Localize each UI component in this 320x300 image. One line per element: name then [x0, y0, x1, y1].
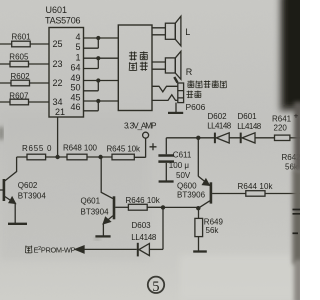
svg-text:D602: D602	[208, 112, 228, 121]
svg-text:Q600: Q600	[177, 181, 197, 190]
svg-text:+: +	[294, 111, 299, 121]
svg-text:34: 34	[53, 97, 63, 107]
svg-text:LL4148: LL4148	[237, 122, 262, 131]
svg-text:50V: 50V	[176, 171, 191, 180]
svg-text:22: 22	[53, 78, 63, 88]
svg-text:5: 5	[75, 42, 80, 52]
svg-text:46: 46	[70, 102, 80, 112]
svg-text:50: 50	[70, 83, 80, 93]
svg-text:4: 4	[75, 32, 80, 42]
svg-text:56k: 56k	[206, 226, 220, 235]
svg-text:L: L	[185, 27, 190, 37]
svg-text:R646 10k: R646 10k	[126, 196, 161, 205]
svg-text:220: 220	[274, 124, 288, 133]
svg-text:BT3904: BT3904	[18, 191, 47, 200]
svg-text:100 μ: 100 μ	[169, 161, 190, 170]
svg-text:1: 1	[75, 53, 80, 63]
svg-text:C611: C611	[173, 151, 192, 160]
svg-text:BT3906: BT3906	[177, 191, 206, 200]
svg-text:BT3904: BT3904	[81, 208, 110, 217]
svg-text:U601: U601	[46, 5, 68, 15]
svg-text:R: R	[186, 67, 193, 77]
svg-text:45: 45	[70, 92, 80, 102]
svg-text:R605: R605	[9, 53, 29, 62]
svg-text:R641: R641	[272, 115, 292, 124]
svg-text:Q601: Q601	[81, 197, 101, 206]
svg-text:3. 3V_AMP: 3. 3V_AMP	[124, 120, 157, 130]
svg-text:64: 64	[70, 62, 80, 72]
svg-text:R607: R607	[9, 92, 29, 101]
svg-text:5: 5	[152, 279, 159, 295]
svg-text:TAS5706: TAS5706	[45, 16, 81, 26]
svg-text:R602: R602	[11, 72, 31, 81]
svg-text:23: 23	[53, 59, 63, 69]
svg-text:25: 25	[53, 39, 63, 49]
svg-text:D603: D603	[132, 221, 152, 230]
svg-text:R645 10k: R645 10k	[107, 144, 142, 153]
svg-text:Q602: Q602	[18, 181, 38, 190]
svg-text:R644 10k: R644 10k	[238, 182, 274, 191]
svg-text:LL4148: LL4148	[131, 233, 157, 242]
svg-text:R601: R601	[12, 33, 32, 42]
svg-text:LL4148: LL4148	[207, 122, 232, 131]
svg-text:D601: D601	[238, 112, 258, 121]
svg-text:R655 0: R655 0	[22, 144, 52, 153]
svg-text:R648 100: R648 100	[63, 144, 98, 153]
svg-text:P606: P606	[186, 102, 206, 112]
svg-text:21: 21	[55, 107, 65, 117]
